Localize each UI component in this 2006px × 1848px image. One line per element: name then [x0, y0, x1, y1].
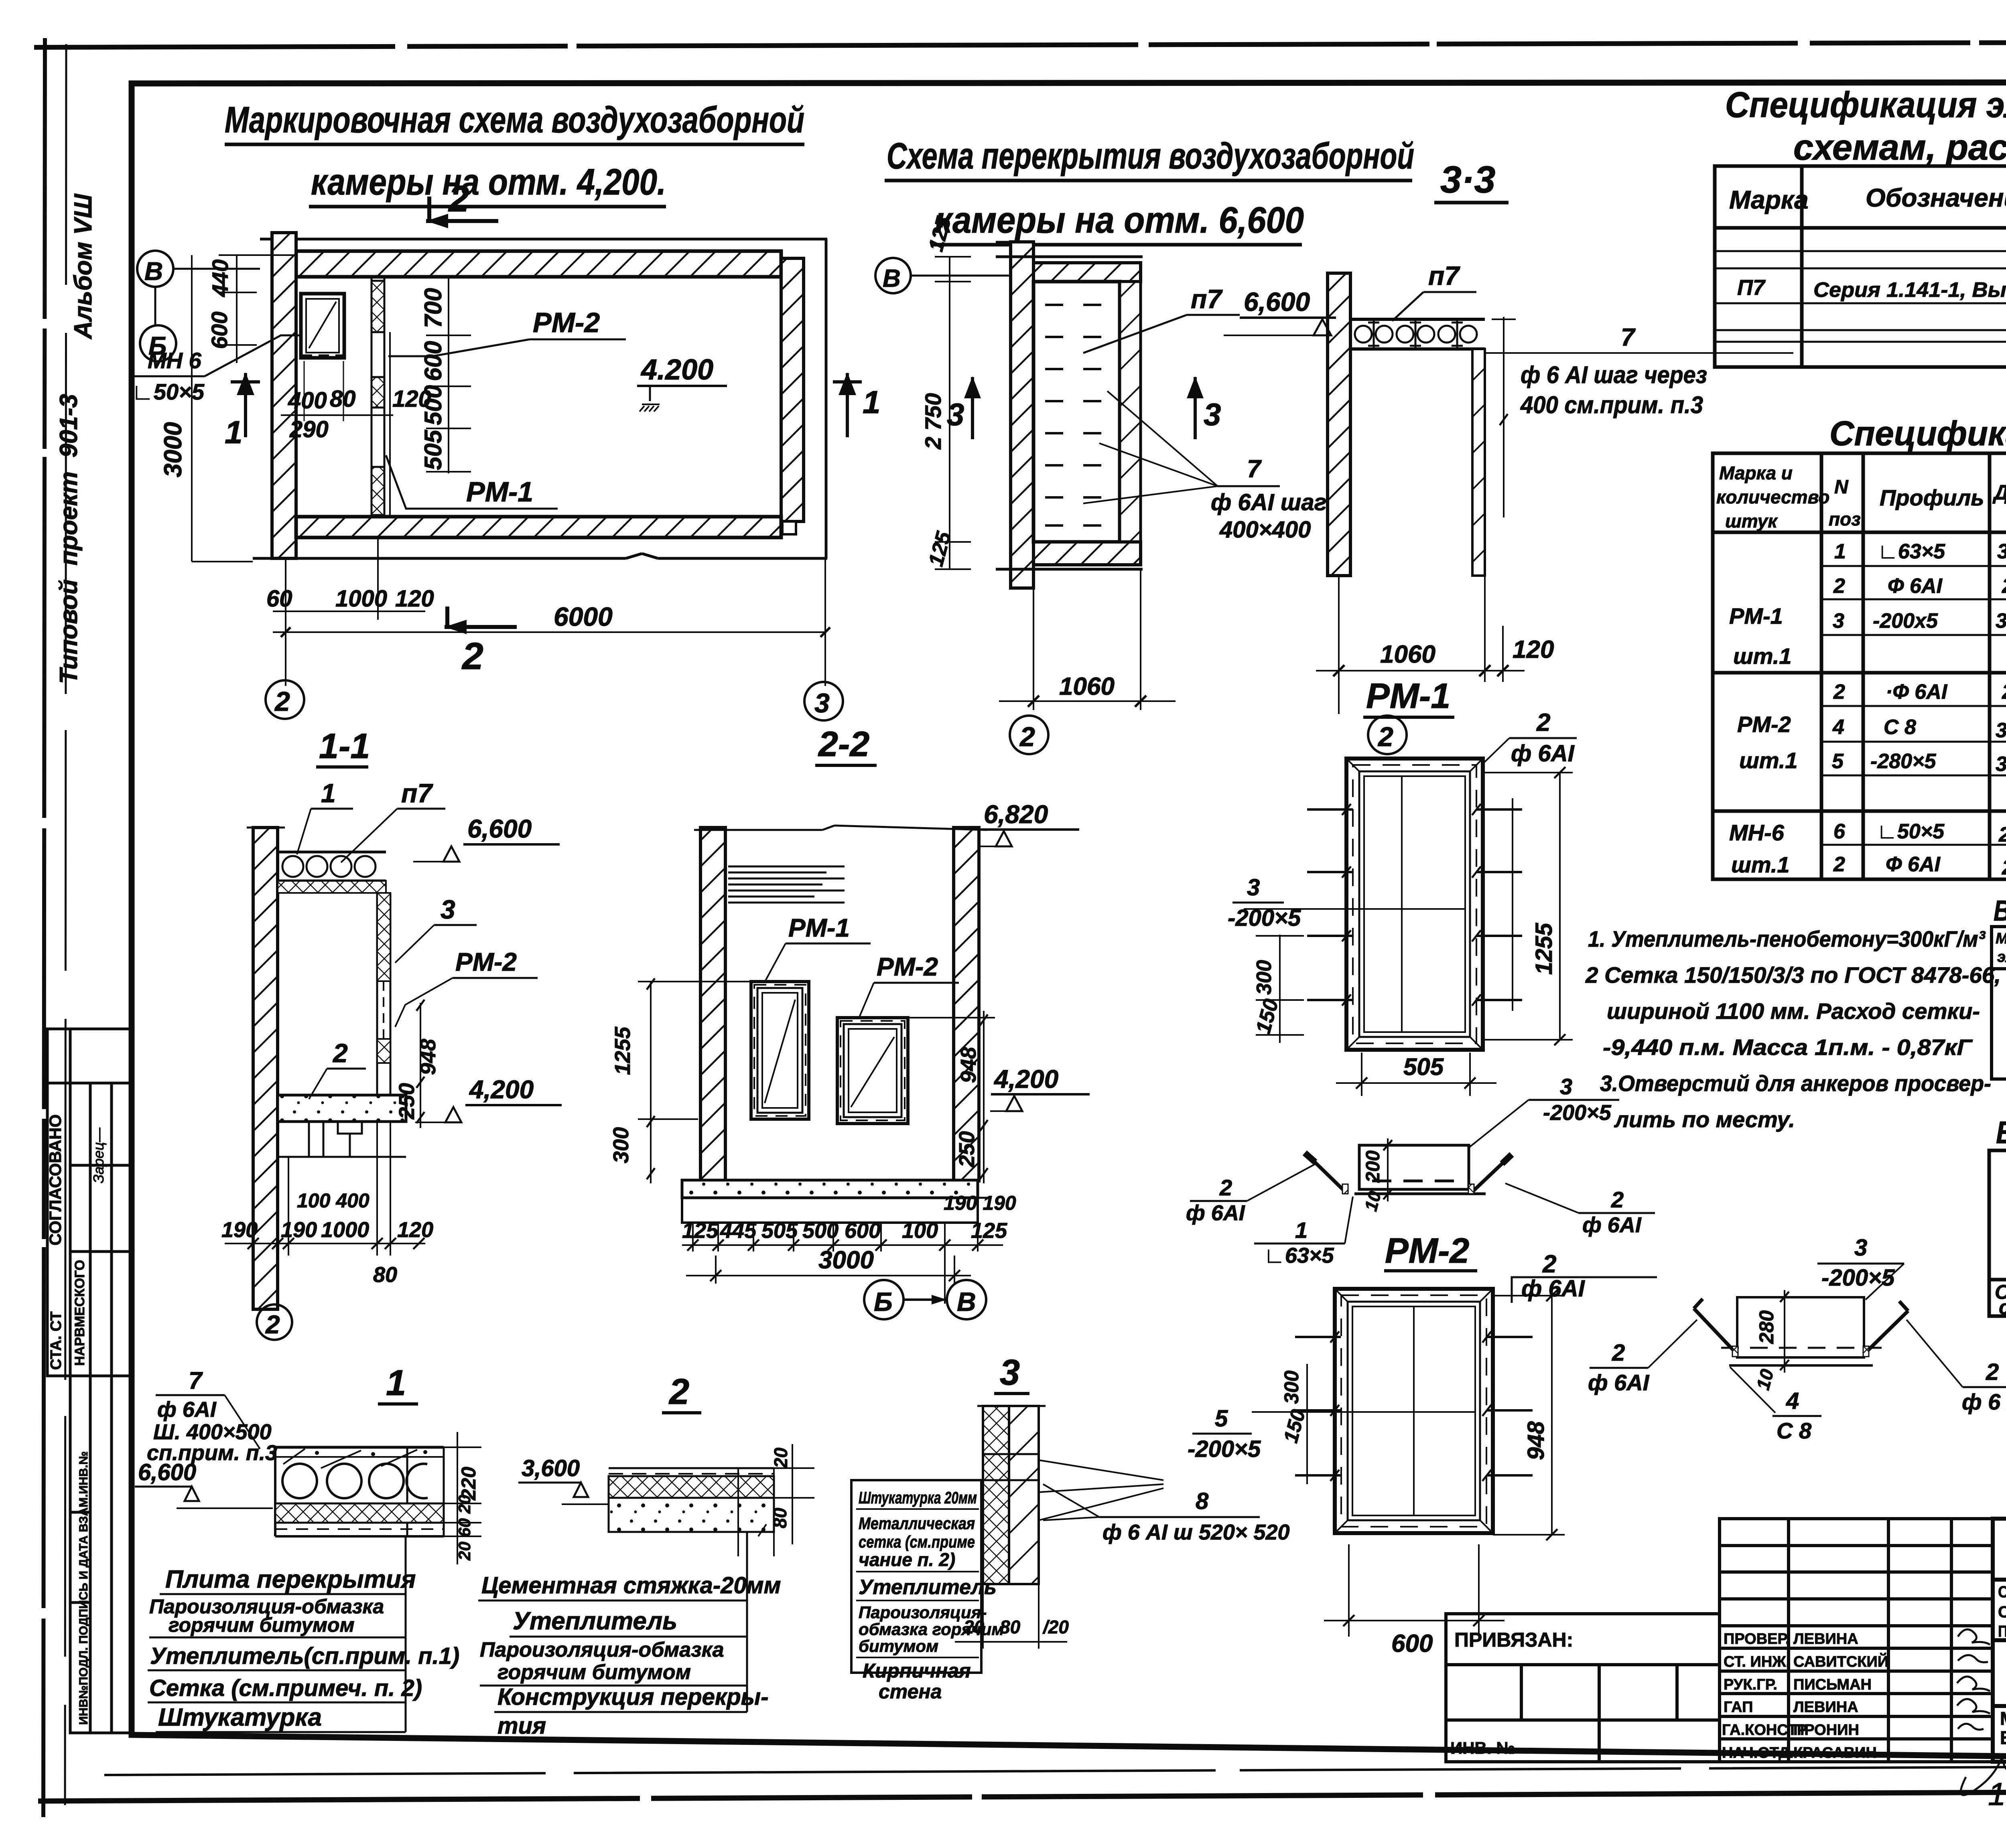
- svg-text:7: 7: [189, 1367, 203, 1394]
- svg-text:количество: количество: [1716, 487, 1829, 507]
- svg-text:шт.1: шт.1: [1731, 852, 1790, 877]
- svg-text:3: 3: [1000, 1353, 1020, 1393]
- svg-text:250: 250: [395, 1083, 419, 1120]
- svg-text:Длина: Длина: [1992, 481, 2006, 504]
- inner chamber outline: [294, 277, 298, 517]
- svg-text:Металлическая: Металлическая: [859, 1514, 975, 1533]
- bottom section marker 2: [445, 607, 517, 634]
- svg-text:4,200: 4,200: [469, 1075, 534, 1104]
- svg-text:РМ-2: РМ-2: [533, 307, 600, 338]
- svg-text:стержни: стержни: [1999, 1296, 2006, 1319]
- svg-text:60: 60: [266, 586, 292, 612]
- paper outer border left: [43, 38, 45, 1817]
- svg-text:400 см.прим. п.3: 400 см.прим. п.3: [1520, 392, 1703, 418]
- svg-text:/20: /20: [1042, 1617, 1069, 1637]
- svg-text:1060: 1060: [1380, 641, 1435, 668]
- svg-text:Альбом VШ: Альбом VШ: [69, 193, 97, 340]
- svg-text:6,600: 6,600: [467, 814, 532, 843]
- svg-text:ф 6АІ: ф 6АІ: [1582, 1213, 1642, 1237]
- svg-text:МН 6: МН 6: [148, 348, 202, 373]
- svg-text:МАРКИРОВОЧНАЯ СХЕМА: МАРКИРОВОЧНАЯ СХЕМА: [2000, 1708, 2006, 1729]
- left wall: [700, 828, 725, 1181]
- bottom hatched band: [1033, 542, 1141, 565]
- svg-text:Цементная стяжка-20мм: Цементная стяжка-20мм: [481, 1572, 781, 1598]
- svg-text:2: 2: [274, 686, 290, 717]
- bottom dims: [285, 558, 286, 686]
- svg-text:400: 400: [288, 387, 327, 414]
- svg-text:190: 190: [281, 1218, 317, 1242]
- svg-text:7: 7: [1621, 324, 1636, 351]
- privyazan table: [1446, 1614, 1720, 1762]
- svg-text:2: 2: [448, 179, 469, 219]
- svg-text:СТА. СТ: СТА. СТ: [48, 1311, 65, 1370]
- svg-text:∟50×5: ∟50×5: [132, 379, 205, 404]
- section arrow 1 right: [833, 372, 862, 437]
- svg-text:Штукатурка: Штукатурка: [158, 1704, 322, 1731]
- bottom dims: [252, 1256, 254, 1309]
- left dims 300 150: [1306, 1364, 1308, 1484]
- svg-text:290: 290: [289, 416, 329, 442]
- floor slab: [682, 1180, 978, 1198]
- window PM-1: [751, 982, 809, 1119]
- partition right: [376, 893, 378, 1095]
- svg-text:САВИТСКИЙ: САВИТСКИЙ: [1793, 1652, 1888, 1670]
- right wall: [954, 828, 979, 1181]
- svg-text:600: 600: [845, 1219, 881, 1243]
- svg-text:280: 280: [2002, 856, 2006, 879]
- window PM-2: [837, 1018, 908, 1124]
- svg-text:Утеплитель(сп.прим. п.1): Утеплитель(сп.прим. п.1): [150, 1643, 459, 1669]
- svg-text:505: 505: [420, 429, 447, 470]
- svg-text:РМ-1: РМ-1: [1366, 676, 1450, 716]
- svg-text:3260: 3260: [1996, 719, 2006, 742]
- svg-text:п7: п7: [401, 778, 433, 808]
- grid bubble 2: [1368, 716, 1407, 754]
- svg-text:500: 500: [802, 1219, 839, 1243]
- grid bubble 2: [266, 680, 304, 719]
- svg-text:3530: 3530: [1996, 609, 2006, 633]
- svg-text:Профиль: Профиль: [1880, 485, 1984, 510]
- svg-text:ПРОНИН: ПРОНИН: [1793, 1722, 1859, 1738]
- svg-text:лить по месту.: лить по месту.: [1614, 1107, 1795, 1132]
- svg-text:Штукатурка 20мм: Штукатурка 20мм: [859, 1488, 977, 1507]
- svg-text:6,820: 6,820: [984, 800, 1048, 829]
- svg-text:1000: 1000: [335, 586, 387, 612]
- svg-text:3000: 3000: [818, 1246, 874, 1274]
- svg-text:Б: Б: [874, 1287, 893, 1317]
- svg-text:1255: 1255: [1531, 923, 1557, 975]
- anchor ties: [1307, 809, 1522, 1000]
- svg-text:2 Сетка 150/150/3/3 по ГОСТ 84: 2 Сетка 150/150/3/3 по ГОСТ 8478-66,: [1585, 962, 2001, 988]
- svg-text:2: 2: [1986, 1359, 1999, 1385]
- wall strips: [977, 1405, 1046, 1407]
- right thin wall: [1472, 349, 1485, 576]
- svg-text:Схема перекрытия воздухозаборн: Схема перекрытия воздухозаборной: [887, 136, 1414, 176]
- left dim 3000: [191, 255, 193, 562]
- leaders from wall to label 8: [1039, 1460, 1163, 1480]
- svg-text:ф 6АІ шаг: ф 6АІ шаг: [1211, 489, 1327, 515]
- svg-text:С 8: С 8: [1884, 716, 1916, 739]
- svg-text:Марка: Марка: [1729, 185, 1809, 214]
- left pier grid2 hatched: [272, 233, 296, 558]
- svg-text:700: 700: [420, 288, 447, 328]
- svg-text:600: 600: [1391, 1630, 1433, 1657]
- svg-text:Марка: Марка: [1996, 930, 2006, 947]
- svg-text:камеры на отм. 4,200.: камеры на отм. 4,200.: [311, 162, 666, 203]
- dim 505: [1361, 1053, 1362, 1096]
- svg-text:100 400: 100 400: [297, 1189, 370, 1212]
- svg-text:Зарец—: Зарец—: [90, 1127, 107, 1183]
- svg-text:Ш. 400×500: Ш. 400×500: [153, 1420, 272, 1444]
- svg-text:Ф 6АІ: Ф 6АІ: [1888, 574, 1943, 598]
- grid bubbles B and V: [864, 1280, 904, 1319]
- svg-text:505: 505: [1403, 1053, 1444, 1080]
- svg-text:2: 2: [461, 635, 483, 678]
- svg-text:445: 445: [720, 1219, 757, 1243]
- svg-text:1: 1: [863, 384, 881, 420]
- bottom dims 20 80 20: [982, 1584, 984, 1649]
- svg-text:обмазка горячим: обмазка горячим: [859, 1620, 1004, 1639]
- svg-text:600: 600: [420, 341, 447, 381]
- svg-text:948: 948: [1523, 1421, 1549, 1460]
- right wall hatched: [781, 258, 804, 521]
- section marker 2 top: [426, 197, 498, 228]
- beam below floor: [309, 1122, 362, 1157]
- bottom outer line with break: [253, 557, 626, 560]
- svg-text:80: 80: [770, 1507, 790, 1528]
- grid bubble 2: [1010, 716, 1048, 754]
- svg-text:2: 2: [332, 1038, 348, 1068]
- svg-text:948: 948: [956, 1047, 981, 1083]
- svg-text:шт.1: шт.1: [1739, 748, 1798, 773]
- svg-text:битумом: битумом: [859, 1637, 938, 1655]
- svg-text:2: 2: [265, 1310, 280, 1339]
- svg-text:3: 3: [1247, 874, 1260, 901]
- svg-text:80: 80: [373, 1263, 397, 1287]
- svg-text:3: 3: [814, 688, 830, 718]
- svg-text:1060: 1060: [1059, 673, 1115, 700]
- bottom dim chain: [692, 1223, 694, 1252]
- frame PM-1: [1346, 759, 1483, 1050]
- grid circle V: [875, 258, 911, 293]
- left dims 125 / 2750 / 125: [949, 257, 950, 569]
- svg-text:РМ-2: РМ-2: [455, 947, 517, 976]
- svg-text:3: 3: [1833, 609, 1844, 633]
- svg-text:200: 200: [1362, 1150, 1384, 1183]
- svg-text:-200×5: -200×5: [1228, 905, 1301, 931]
- svg-text:НАРВМЕСКОГО: НАРВМЕСКОГО: [72, 1260, 87, 1366]
- svg-text:Пароизоляция-обмазка: Пароизоляция-обмазка: [480, 1638, 724, 1661]
- grid bubble 3: [804, 682, 843, 720]
- leader 7 / f6A1 shag cherez 400: [1485, 352, 1793, 354]
- svg-text:Маркировочная схема воздухозаб: Маркировочная схема воздухозаборной: [225, 99, 804, 140]
- right wall notch: [782, 521, 796, 534]
- svg-text:300: 300: [1253, 960, 1276, 995]
- 3000 dim: [715, 1256, 717, 1284]
- svg-text:В: В: [883, 265, 901, 292]
- svg-text:440: 440: [207, 260, 233, 297]
- svg-text:3.Отверстий для анкеров просве: 3.Отверстий для анкеров просвер-: [1600, 1071, 1991, 1096]
- svg-text:2 750: 2 750: [920, 393, 946, 450]
- svg-text:400×400: 400×400: [1219, 517, 1311, 543]
- grid circle B: [140, 325, 176, 361]
- svg-text:ИНВ. №: ИНВ. №: [1450, 1738, 1515, 1757]
- paper outer border bottom: [38, 1790, 2006, 1801]
- svg-text:120: 120: [392, 386, 431, 412]
- svg-text:280: 280: [2002, 574, 2006, 598]
- signatures cursive: [1957, 1629, 2006, 1795]
- svg-text:Конструкция перекры-: Конструкция перекры-: [497, 1684, 769, 1710]
- bottom dims 1060 120: [1338, 576, 1340, 714]
- svg-text:горячим битумом: горячим битумом: [169, 1614, 355, 1636]
- left wall: [253, 828, 278, 1309]
- svg-text:МН-6: МН-6: [1729, 820, 1785, 845]
- svg-text:∟63×5: ∟63×5: [1264, 1243, 1334, 1268]
- svg-text:РМ-2: РМ-2: [1737, 712, 1791, 737]
- slab P7 rect: [1033, 282, 1120, 542]
- grid bubble 2: [257, 1304, 292, 1340]
- insulation under slab: [278, 881, 386, 893]
- svg-text:1-1: 1-1: [319, 726, 370, 766]
- svg-text:РМ-1: РМ-1: [1729, 603, 1783, 629]
- left dims 300 150: [1279, 935, 1281, 1043]
- svg-text:3: 3: [947, 397, 964, 432]
- svg-text:3: 3: [1854, 1235, 1867, 1261]
- svg-text:2: 2: [1542, 1250, 1556, 1278]
- svg-text:∟63×5: ∟63×5: [1878, 540, 1945, 563]
- svg-text:РМ-1: РМ-1: [788, 913, 850, 942]
- right dims: [792, 1444, 793, 1544]
- svg-text:В: В: [957, 1287, 976, 1317]
- svg-text:Утеплитель: Утеплитель: [513, 1607, 677, 1635]
- svg-text:п7: п7: [1428, 261, 1460, 290]
- svg-text:шт.1: шт.1: [1733, 643, 1792, 669]
- svg-text:3,600: 3,600: [522, 1455, 580, 1481]
- top hatched band: [1033, 263, 1141, 282]
- svg-text:1: 1: [1295, 1217, 1308, 1243]
- svg-text:Плита перекрытия: Плита перекрытия: [165, 1566, 416, 1593]
- svg-text:ЛЕВИНА: ЛЕВИНА: [1793, 1631, 1858, 1647]
- svg-text:∟50×5: ∟50×5: [1877, 820, 1945, 843]
- top edge: [996, 256, 1143, 258]
- svg-text:·Ф 6АІ: ·Ф 6АІ: [1886, 680, 1948, 704]
- section arrow 3 left: [964, 376, 981, 439]
- svg-text:Ф 6АІ: Ф 6АІ: [1886, 853, 1941, 876]
- partition wall: [371, 277, 373, 517]
- svg-text:2: 2: [1377, 722, 1393, 752]
- stamp box 2 (inv no, podpis): [70, 1376, 132, 1733]
- svg-text:п7: п7: [1191, 284, 1223, 314]
- svg-text:1. Утеплитель-пенобетону=300кГ: 1. Утеплитель-пенобетону=300кГ/м³: [1588, 926, 1986, 951]
- signatures table: [1720, 1519, 1993, 1762]
- left dims 1255 300: [650, 982, 652, 1183]
- svg-text:СОГЛАСОВАНО: СОГЛАСОВАНО: [46, 1114, 65, 1246]
- screed slab: [609, 1467, 774, 1469]
- svg-text:ПРОВЕР.: ПРОВЕР.: [1724, 1631, 1790, 1647]
- svg-text:2: 2: [1612, 1340, 1625, 1366]
- anchor symbols on slab: [1368, 321, 1379, 347]
- main right block: [1993, 1519, 2006, 1762]
- svg-text:сетка (см.приме: сетка (см.приме: [859, 1532, 975, 1551]
- svg-text:2-2: 2-2: [818, 724, 869, 764]
- svg-text:РМ-2: РМ-2: [877, 952, 938, 981]
- grid circle V: [137, 251, 173, 287]
- section arrow 1 left: [231, 372, 260, 437]
- svg-text:-9,440 п.м. Масса 1п.м. - 0,87: -9,440 п.м. Масса 1п.м. - 0,87кГ: [1603, 1035, 1973, 1060]
- material label box: [851, 1480, 981, 1673]
- svg-text:2: 2: [668, 1372, 689, 1412]
- svg-text:20: 20: [770, 1447, 791, 1469]
- svg-text:Обозначение: Обозначение: [1866, 183, 2006, 212]
- svg-text:камеры на отм. 6,600: камеры на отм. 6,600: [935, 200, 1304, 241]
- svg-text:СТАНЦИЯ ОЧИСТКИ ВОДЫ ПОВЕРХНОС: СТАНЦИЯ ОЧИСТКИ ВОДЫ ПОВЕРХНОСТНЫХ ИСТОЧ…: [1998, 1583, 2006, 1601]
- svg-text:шириной 1100 мм. Расход сетки-: шириной 1100 мм. Расход сетки-: [1607, 998, 1980, 1024]
- svg-text:600: 600: [207, 312, 232, 349]
- svg-text:1255: 1255: [611, 1026, 635, 1075]
- svg-text:2: 2: [1219, 1175, 1232, 1200]
- svg-text:-200х5: -200х5: [1873, 609, 1938, 633]
- svg-text:4,200: 4,200: [993, 1065, 1058, 1093]
- stamp box 1 (soglasovano): [47, 1029, 132, 1376]
- svg-text:ф 6АІ: ф 6АІ: [1521, 1276, 1586, 1302]
- slab with cores: [275, 1446, 444, 1449]
- svg-text:РМ-1: РМ-1: [466, 476, 533, 507]
- anchor ties: [1295, 1337, 1533, 1475]
- bottom wall hatched band: [296, 517, 781, 538]
- svg-text:2200: 2200: [1998, 823, 2006, 846]
- outer right line: [825, 239, 828, 558]
- slab band with cores: [1350, 318, 1485, 321]
- right dims 948 250: [420, 1003, 421, 1128]
- svg-text:4: 4: [1786, 1388, 1799, 1414]
- svg-text:Серия 1.141-1, Вып. 11: Серия 1.141-1, Вып. 11: [1813, 278, 2006, 302]
- wall top hatched band: [296, 251, 781, 277]
- svg-text:948: 948: [416, 1039, 440, 1075]
- svg-text:ф 6 АІ ш 520× 520: ф 6 АІ ш 520× 520: [1102, 1520, 1290, 1544]
- svg-text:-200×5: -200×5: [1188, 1436, 1261, 1462]
- svg-text:КРАСАВИН: КРАСАВИН: [1793, 1745, 1877, 1761]
- svg-text:3: 3: [1560, 1074, 1572, 1099]
- right tie dim line: [1512, 798, 1513, 1011]
- dim 948 right: [1493, 1295, 1565, 1296]
- svg-text:-280×5: -280×5: [1870, 750, 1936, 773]
- svg-text:3·3: 3·3: [1440, 158, 1495, 201]
- svg-text:ф 6АІ: ф 6АІ: [157, 1398, 217, 1422]
- svg-text:ф 6АІ: ф 6АІ: [1588, 1370, 1650, 1395]
- anchor rods: [1694, 1308, 1736, 1353]
- floor: [278, 1095, 406, 1122]
- svg-text:N: N: [1834, 477, 1849, 498]
- svg-text:ВОЗДУХОЗАБОРНОЙ КАМЕРЫ: ВОЗДУХОЗАБОРНОЙ КАМЕРЫ: [2000, 1727, 2006, 1748]
- svg-text:ф 6 АІ: ф 6 АІ: [1962, 1389, 2006, 1414]
- svg-text:ПРОИЗВОДИТЕЛЬНОСТЬЮ 20ТЫС.М3/С: ПРОИЗВОДИТЕЛЬНОСТЬЮ 20ТЫС.М3/СУТКИ С КОН…: [1998, 1622, 2006, 1640]
- svg-text:1000: 1000: [321, 1218, 369, 1242]
- svg-text:8: 8: [1196, 1488, 1209, 1514]
- svg-text:2: 2: [1833, 853, 1845, 876]
- svg-text:2: 2: [1833, 680, 1845, 704]
- svg-text:3: 3: [441, 895, 455, 924]
- svg-text:В: В: [144, 257, 163, 286]
- svg-text:1: 1: [386, 1363, 406, 1403]
- svg-text:280: 280: [2002, 680, 2006, 704]
- svg-text:стена: стена: [879, 1680, 942, 1703]
- svg-text:НАЧ.ОТД.: НАЧ.ОТД.: [1722, 1745, 1794, 1761]
- slab with cores: [278, 851, 386, 854]
- svg-text:-200×5: -200×5: [1543, 1101, 1612, 1125]
- svg-text:Утеплитель: Утеплитель: [859, 1576, 997, 1599]
- svg-text:чание п. 2): чание п. 2): [859, 1549, 955, 1570]
- svg-text:505: 505: [761, 1219, 798, 1243]
- svg-text:Пароизоляция-: Пароизоляция-: [859, 1603, 987, 1622]
- left wall band: [1011, 242, 1033, 588]
- svg-text:3000: 3000: [159, 422, 187, 477]
- svg-text:3120: 3120: [1996, 753, 2006, 776]
- svg-text:ПРИВЯЗАН:: ПРИВЯЗАН:: [1454, 1629, 1573, 1651]
- insulation band: [275, 1503, 444, 1523]
- svg-text:ф 6АІ: ф 6АІ: [1511, 740, 1575, 767]
- svg-text:ЛЕВИНА: ЛЕВИНА: [1793, 1699, 1858, 1716]
- svg-text:125: 125: [682, 1219, 719, 1243]
- svg-text:300: 300: [1280, 1370, 1303, 1404]
- svg-text:6,600: 6,600: [1244, 287, 1310, 316]
- svg-text:2: 2: [1019, 722, 1035, 752]
- svg-text:20 60 20: 20 60 20: [455, 1495, 474, 1561]
- svg-text:ИНВ№ПОДЛ. ПОДПИСЬ И ДАТА ВЗАМ.: ИНВ№ПОДЛ. ПОДПИСЬ И ДАТА ВЗАМ.ИНВ.№: [77, 1451, 90, 1725]
- frame PM-2: [1335, 1289, 1493, 1533]
- svg-text:ГАП: ГАП: [1724, 1699, 1753, 1716]
- dim 200 inside: [1387, 1138, 1389, 1201]
- svg-text:3: 3: [1204, 397, 1221, 432]
- svg-text:горячим битумом: горячим битумом: [497, 1661, 691, 1684]
- ceiling shade lines: [728, 866, 845, 903]
- svg-text:Выборка стали на один элемент,: Выборка стали на один элемент, кГ: [1996, 1115, 2006, 1150]
- slab right band: [1120, 282, 1141, 542]
- svg-text:1: 1: [321, 778, 336, 808]
- svg-text:РУК.ГР.: РУК.ГР.: [1724, 1676, 1777, 1693]
- svg-text:Спецификация стали на одну мар: Спецификация стали на одну марку: [1829, 414, 2006, 453]
- svg-text:2: 2: [1611, 1187, 1624, 1212]
- svg-text:схемам, расположенным на листе: схемам, расположенным на листе: [1793, 128, 2006, 168]
- anchor rods: [1313, 1160, 1345, 1191]
- svg-text:СОДЕРЖАНИЕМ ВЗВЕШЕННЫХ ВЕЩЕСТВ: СОДЕРЖАНИЕМ ВЗВЕШЕННЫХ ВЕЩЕСТВ ДО 2500 М…: [1998, 1603, 2006, 1621]
- svg-text:4: 4: [1832, 716, 1844, 739]
- svg-text:штук: штук: [1725, 511, 1778, 531]
- svg-text:Сетка (см.примеч. п. 2): Сетка (см.примеч. п. 2): [149, 1675, 422, 1701]
- svg-text:СТ. ИНЖ.: СТ. ИНЖ.: [1724, 1653, 1790, 1670]
- svg-text:-200×5: -200×5: [1821, 1265, 1895, 1291]
- svg-text:80: 80: [330, 386, 356, 412]
- paper outer border top: [34, 41, 2006, 47]
- svg-text:3820: 3820: [1997, 540, 2006, 563]
- wall top outer line: [260, 238, 827, 241]
- svg-text:Кирпичная: Кирпичная: [863, 1659, 971, 1682]
- svg-text:2: 2: [1833, 574, 1845, 598]
- svg-text:РМ-2: РМ-2: [1385, 1231, 1469, 1270]
- svg-text:Ведомость стержней на один эле: Ведомость стержней на один элемент, кГ: [1994, 895, 2006, 927]
- svg-text:120: 120: [1513, 636, 1554, 663]
- svg-text:120: 120: [395, 586, 434, 612]
- section arrow 3 right: [1187, 376, 1204, 439]
- svg-text:280: 280: [1755, 1310, 1778, 1344]
- svg-text:С 8: С 8: [1777, 1418, 1812, 1443]
- svg-text:190: 190: [221, 1218, 258, 1242]
- svg-text:6000: 6000: [554, 602, 613, 631]
- dim 1255: [1483, 772, 1573, 773]
- svg-text:Спецификация элементов к марки: Спецификация элементов к маркировочным: [1725, 85, 2006, 125]
- svg-text:7: 7: [1247, 455, 1262, 483]
- svg-text:190 190: 190 190: [944, 1192, 1016, 1214]
- svg-text:ПИСЬМАН: ПИСЬМАН: [1793, 1676, 1872, 1693]
